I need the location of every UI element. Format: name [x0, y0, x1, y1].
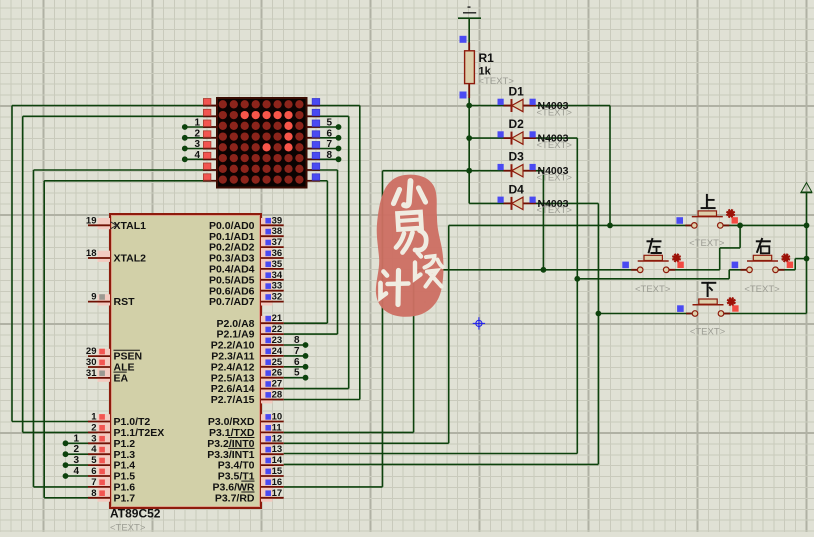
- svg-text:4: 4: [91, 444, 97, 455]
- svg-text:18: 18: [86, 248, 97, 259]
- svg-text:<TEXT>: <TEXT>: [110, 523, 146, 533]
- svg-text:27: 27: [272, 379, 283, 390]
- svg-text:3: 3: [91, 433, 96, 444]
- svg-text:6: 6: [294, 357, 300, 368]
- svg-text:25: 25: [272, 357, 283, 368]
- svg-text:32: 32: [272, 292, 283, 303]
- svg-text:12: 12: [272, 433, 283, 444]
- svg-text:<TEXT>: <TEXT>: [689, 238, 725, 249]
- svg-text:6: 6: [327, 128, 333, 139]
- svg-text:7: 7: [294, 346, 300, 357]
- svg-text:4: 4: [194, 150, 200, 161]
- svg-text:16: 16: [272, 477, 283, 488]
- svg-text:D2: D2: [509, 117, 525, 131]
- svg-text:15: 15: [272, 466, 283, 477]
- svg-text:33: 33: [272, 281, 283, 292]
- svg-text:P3.7/RD: P3.7/RD: [215, 492, 255, 504]
- svg-text:9: 9: [91, 292, 96, 303]
- svg-text:39: 39: [272, 215, 283, 226]
- svg-text:D4: D4: [509, 182, 525, 196]
- svg-text:19: 19: [86, 215, 97, 226]
- svg-text:31: 31: [86, 368, 97, 379]
- svg-text:34: 34: [272, 270, 283, 281]
- svg-text:XTAL2: XTAL2: [114, 253, 147, 265]
- svg-text:36: 36: [272, 248, 283, 259]
- svg-text:23: 23: [272, 335, 283, 346]
- svg-text:7: 7: [91, 477, 96, 488]
- svg-text:<TEXT>: <TEXT>: [690, 327, 726, 338]
- svg-text:EA: EA: [114, 373, 129, 385]
- svg-text:D1: D1: [509, 85, 525, 99]
- svg-text:21: 21: [272, 313, 283, 324]
- svg-text:5: 5: [91, 455, 97, 466]
- svg-text:38: 38: [272, 226, 283, 237]
- svg-text:3: 3: [73, 455, 79, 466]
- svg-text:<TEXT>: <TEXT>: [744, 284, 780, 295]
- svg-text:22: 22: [272, 324, 283, 335]
- svg-text:28: 28: [272, 390, 283, 401]
- svg-text:8: 8: [91, 488, 96, 499]
- svg-text:P0.7/AD7: P0.7/AD7: [209, 296, 255, 308]
- svg-text:1: 1: [91, 412, 97, 423]
- svg-text:AT89C52: AT89C52: [110, 507, 161, 521]
- svg-text:24: 24: [272, 346, 283, 357]
- svg-text:6: 6: [91, 466, 96, 477]
- svg-text:XTAL1: XTAL1: [114, 220, 147, 232]
- svg-text:5: 5: [327, 118, 333, 129]
- svg-text:7: 7: [327, 139, 333, 150]
- svg-text:2: 2: [91, 422, 96, 433]
- svg-text:30: 30: [86, 357, 97, 368]
- svg-text:17: 17: [272, 488, 283, 499]
- svg-text:P1.7: P1.7: [114, 492, 136, 504]
- svg-text:13: 13: [272, 444, 283, 455]
- svg-text:8: 8: [294, 335, 300, 346]
- svg-text:1: 1: [194, 118, 200, 129]
- svg-text:D3: D3: [509, 150, 525, 164]
- svg-text:RST: RST: [114, 296, 136, 308]
- svg-text:<TEXT>: <TEXT>: [635, 284, 671, 295]
- svg-text:5: 5: [294, 368, 300, 379]
- svg-text:<TEXT>: <TEXT>: [537, 173, 573, 184]
- svg-text:<TEXT>: <TEXT>: [537, 140, 573, 151]
- svg-text:10: 10: [272, 412, 283, 423]
- svg-text:2: 2: [194, 128, 200, 139]
- svg-text:4: 4: [73, 466, 79, 477]
- svg-text:29: 29: [86, 346, 97, 357]
- svg-text:<TEXT>: <TEXT>: [537, 107, 573, 118]
- svg-text:R1: R1: [479, 51, 495, 65]
- svg-text:<TEXT>: <TEXT>: [537, 205, 573, 216]
- svg-text:3: 3: [194, 139, 200, 150]
- svg-text:26: 26: [272, 368, 283, 379]
- svg-text:8: 8: [327, 150, 333, 161]
- svg-text:37: 37: [272, 237, 283, 248]
- svg-text:P2.7/A15: P2.7/A15: [211, 394, 255, 406]
- svg-text:35: 35: [272, 259, 283, 270]
- svg-text:1: 1: [73, 433, 79, 444]
- svg-text:11: 11: [272, 422, 283, 433]
- svg-text:14: 14: [272, 455, 283, 466]
- svg-text:2: 2: [73, 444, 79, 455]
